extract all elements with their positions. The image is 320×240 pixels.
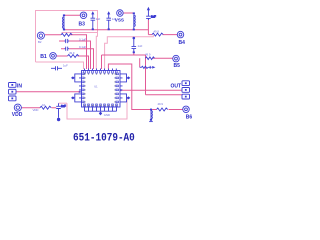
svg-text:B4: B4 xyxy=(179,40,186,46)
svg-text:49.9: 49.9 xyxy=(154,30,160,34)
resistor R2 xyxy=(61,33,72,36)
svg-text:B2: B2 xyxy=(38,40,42,44)
connector OUT boxes xyxy=(182,81,190,99)
resistor R4 xyxy=(152,33,163,36)
svg-text:OUT: OUT xyxy=(171,84,182,90)
wire loop border box1 xyxy=(36,11,98,70)
svg-text:49.9: 49.9 xyxy=(158,102,164,106)
wire OUT xyxy=(120,89,182,91)
svg-text:0.1uF: 0.1uF xyxy=(79,37,86,41)
inductor L3 vertical at B6 xyxy=(149,110,153,122)
wire cap row2 xyxy=(61,49,94,69)
capacitor C1 (VCC arrow) xyxy=(91,11,96,30)
wire VSS to L2 xyxy=(123,12,134,14)
wire B4 row xyxy=(148,34,177,36)
wire B2 row xyxy=(45,35,87,69)
left bracket lower xyxy=(71,94,79,102)
wire VDD row xyxy=(22,107,57,109)
resistor R1 xyxy=(68,55,79,58)
wire OUT lower xyxy=(146,94,183,96)
gnd arrow xyxy=(99,112,102,116)
offpage arrow row xyxy=(140,58,156,68)
connector B2 xyxy=(37,32,44,39)
junction OUT wire terminal xyxy=(120,89,122,91)
svg-text:B5: B5 xyxy=(174,63,181,69)
wire VDD cap top xyxy=(59,102,68,104)
wire power rail xyxy=(64,29,148,31)
wire IC bottom enclosure xyxy=(67,97,127,119)
capacitor C2 (VCC arrow) xyxy=(106,11,111,30)
wire B3 to L xyxy=(64,14,80,16)
connector VSS xyxy=(117,10,124,17)
connector B6 xyxy=(183,106,190,113)
junction B6 row xyxy=(150,109,152,111)
svg-text:49.9: 49.9 xyxy=(69,51,75,55)
resistor R6 xyxy=(157,108,168,111)
right bracket lower xyxy=(123,94,131,102)
IC U1 body xyxy=(82,71,121,108)
svg-text:GND: GND xyxy=(104,113,110,117)
capacitor C7 with ball xyxy=(56,103,66,121)
capacitor K2 with ball xyxy=(132,37,137,54)
connector B3 xyxy=(80,12,87,18)
svg-text:1uF: 1uF xyxy=(96,17,101,21)
IC top pins xyxy=(84,69,117,74)
inductor L2 xyxy=(133,12,136,30)
resistor R3 xyxy=(40,106,51,109)
capacitor C6 below box xyxy=(51,66,62,70)
capacitor C5 row2 xyxy=(65,47,70,51)
connector VDD xyxy=(14,104,21,111)
svg-text:49.9: 49.9 xyxy=(145,53,151,57)
wire B4 vertical xyxy=(147,20,149,35)
svg-text:1uF: 1uF xyxy=(151,15,156,19)
wire cap row1 xyxy=(59,41,91,69)
connector B4 xyxy=(177,31,184,38)
capacitor C4 (VCC arrow, B4 net) xyxy=(146,7,156,20)
IC left pins xyxy=(79,73,84,103)
wire box1 bottom to IC pin xyxy=(36,62,84,69)
svg-text:U1: U1 xyxy=(94,85,98,89)
capacitor C3 row1 xyxy=(65,39,70,43)
junction IN wire terminal xyxy=(79,91,81,93)
svg-text:1uF: 1uF xyxy=(63,64,68,68)
svg-text:VSS: VSS xyxy=(115,17,124,22)
wire B6 row xyxy=(169,109,183,111)
svg-text:IN: IN xyxy=(17,84,22,90)
wire B6 net from IC xyxy=(108,64,156,110)
IC right pins xyxy=(116,73,123,103)
connector IN boxes xyxy=(9,83,17,101)
svg-text:10: 10 xyxy=(42,103,46,107)
wire IN xyxy=(16,91,80,93)
svg-text:0.1uF: 0.1uF xyxy=(79,45,86,49)
inductor L1 xyxy=(63,14,66,30)
connector B1 xyxy=(50,53,57,60)
svg-text:VDD: VDD xyxy=(12,112,23,118)
wire staircase right xyxy=(105,35,154,69)
svg-text:651-1079-A0: 651-1079-A0 xyxy=(73,133,135,145)
wire B5 row xyxy=(153,57,174,59)
svg-text:VDD: VDD xyxy=(33,108,39,112)
IC pin numbers speckle xyxy=(84,73,117,106)
left bracket upper xyxy=(71,74,79,82)
right bracket upper xyxy=(123,74,131,82)
svg-text:B3: B3 xyxy=(79,21,86,27)
wire staircase border xyxy=(62,32,98,34)
svg-text:1uF: 1uF xyxy=(61,104,66,108)
wire corner to B5 resistor xyxy=(145,55,147,95)
wire B1 row xyxy=(56,56,88,69)
connector B5 xyxy=(173,55,180,62)
svg-text:1uF: 1uF xyxy=(138,44,143,48)
wire right mid to IC xyxy=(102,53,146,69)
IC bottom gnd comb xyxy=(85,110,117,112)
resistor R5 xyxy=(146,57,155,60)
svg-text:B1: B1 xyxy=(40,54,47,60)
svg-text:B6: B6 xyxy=(186,114,193,120)
IC bottom pins xyxy=(84,104,118,111)
